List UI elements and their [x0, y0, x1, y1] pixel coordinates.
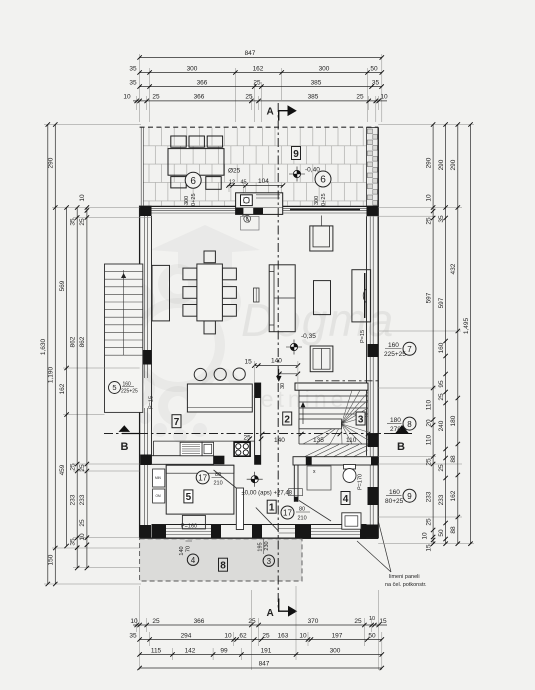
svg-text:300: 300: [314, 196, 320, 205]
svg-text:7: 7: [174, 417, 180, 428]
svg-text:7: 7: [407, 345, 412, 354]
svg-text:140: 140: [271, 358, 282, 365]
svg-text:160: 160: [438, 342, 445, 353]
svg-text:6: 6: [246, 217, 249, 223]
svg-text:294: 294: [181, 632, 192, 639]
svg-text:290: 290: [450, 159, 457, 170]
svg-text:300: 300: [184, 196, 190, 205]
svg-text:Ø25: Ø25: [228, 168, 241, 175]
svg-text:±0,00 (aps) +27,48: ±0,00 (aps) +27,48: [242, 491, 293, 497]
svg-text:2: 2: [284, 414, 290, 425]
svg-text:35: 35: [129, 79, 137, 86]
svg-text:3: 3: [267, 557, 272, 566]
svg-text:210: 210: [214, 481, 223, 487]
svg-text:4: 4: [343, 494, 349, 505]
svg-text:Dogma: Dogma: [241, 294, 394, 346]
svg-text:162: 162: [450, 490, 457, 501]
svg-text:35: 35: [372, 79, 380, 86]
svg-text:4: 4: [191, 556, 196, 565]
svg-text:10: 10: [299, 632, 307, 639]
svg-text:569: 569: [59, 280, 66, 291]
svg-text:225+25: 225+25: [384, 351, 406, 358]
svg-text:6: 6: [190, 176, 196, 187]
svg-text:P=15: P=15: [149, 396, 155, 409]
svg-text:5: 5: [186, 492, 192, 503]
svg-text:240: 240: [438, 420, 445, 431]
svg-text:8: 8: [407, 420, 412, 429]
svg-text:195: 195: [258, 542, 264, 551]
svg-text:B: B: [397, 441, 405, 453]
svg-text:25: 25: [438, 464, 445, 472]
svg-text:3: 3: [358, 414, 364, 425]
svg-text:99: 99: [220, 647, 228, 654]
svg-text:25: 25: [354, 618, 362, 625]
svg-text:25: 25: [425, 458, 432, 466]
svg-text:160: 160: [389, 489, 400, 496]
svg-text:na čel. potkonstr.: na čel. potkonstr.: [385, 582, 427, 588]
svg-text:233: 233: [79, 494, 86, 505]
svg-text:80+25: 80+25: [385, 498, 404, 505]
svg-text:25: 25: [70, 463, 77, 471]
svg-text:35: 35: [129, 632, 137, 639]
svg-text:20: 20: [425, 419, 432, 427]
svg-text:35: 35: [438, 215, 445, 223]
svg-text:-0,40: -0,40: [305, 167, 320, 174]
svg-text:10: 10: [380, 94, 388, 101]
svg-text:10: 10: [79, 533, 86, 541]
svg-text:88: 88: [450, 455, 457, 463]
svg-text:25: 25: [245, 94, 253, 101]
svg-text:15: 15: [379, 618, 387, 625]
svg-text:9: 9: [407, 492, 412, 501]
svg-text:1: 1: [269, 503, 275, 514]
svg-text:A: A: [267, 608, 274, 619]
svg-text:1,495: 1,495: [463, 317, 470, 334]
svg-text:25: 25: [152, 94, 160, 101]
svg-text:300: 300: [330, 647, 341, 654]
svg-text:25: 25: [79, 218, 86, 226]
svg-text:B: B: [121, 441, 129, 453]
svg-text:104: 104: [258, 178, 269, 185]
svg-text:10: 10: [224, 632, 232, 639]
svg-text:110: 110: [425, 434, 432, 445]
svg-text:847: 847: [259, 661, 270, 668]
svg-text:10: 10: [130, 618, 138, 625]
svg-text:P=15: P=15: [360, 330, 366, 343]
svg-text:70: 70: [186, 546, 192, 552]
svg-text:150: 150: [48, 554, 55, 565]
svg-text:385: 385: [311, 79, 322, 86]
svg-text:140: 140: [179, 546, 185, 555]
svg-text:162: 162: [59, 383, 66, 394]
svg-text:95: 95: [438, 380, 445, 388]
svg-text:140: 140: [274, 437, 285, 444]
svg-text:A: A: [267, 107, 274, 118]
svg-text:10: 10: [79, 194, 86, 202]
svg-text:8: 8: [220, 561, 226, 572]
svg-text:50: 50: [370, 65, 378, 72]
svg-text:180: 180: [450, 415, 457, 426]
svg-text:6: 6: [320, 175, 326, 186]
svg-text:210: 210: [298, 516, 307, 522]
svg-text:45: 45: [241, 180, 247, 186]
svg-text:115: 115: [151, 647, 162, 654]
svg-text:142: 142: [185, 647, 196, 654]
svg-text:230: 230: [264, 541, 270, 550]
svg-text:300: 300: [319, 65, 330, 72]
svg-text:17: 17: [198, 474, 207, 483]
svg-text:10: 10: [421, 532, 428, 540]
svg-text:25: 25: [262, 632, 270, 639]
svg-text:862: 862: [70, 336, 77, 347]
svg-text:50: 50: [368, 632, 376, 639]
svg-text:80: 80: [215, 472, 221, 478]
svg-text:88: 88: [450, 526, 457, 534]
svg-text:25: 25: [79, 519, 86, 527]
svg-text:P=170: P=170: [358, 474, 364, 490]
svg-text:OM: OM: [156, 494, 161, 498]
svg-text:847: 847: [245, 50, 256, 57]
svg-text:15: 15: [425, 544, 432, 552]
svg-text:35: 35: [129, 65, 137, 72]
svg-text:197: 197: [332, 632, 343, 639]
svg-text:25: 25: [425, 518, 432, 526]
svg-text:300: 300: [187, 65, 198, 72]
svg-text:110: 110: [346, 437, 357, 444]
svg-text:-0,35: -0,35: [301, 333, 316, 340]
svg-text:25: 25: [253, 79, 261, 86]
svg-text:25: 25: [152, 618, 160, 625]
svg-text:10: 10: [123, 94, 131, 101]
svg-text:278: 278: [390, 426, 401, 433]
svg-text:160: 160: [388, 342, 399, 349]
svg-text:25: 25: [425, 217, 432, 225]
svg-text:180: 180: [390, 417, 401, 424]
svg-text:290: 290: [438, 159, 445, 170]
svg-text:225+25: 225+25: [121, 389, 138, 395]
svg-text:5: 5: [112, 383, 116, 392]
svg-text:25: 25: [248, 618, 256, 625]
svg-text:17: 17: [283, 509, 292, 518]
svg-text:P=160: P=160: [181, 524, 197, 530]
svg-text:25: 25: [438, 393, 445, 401]
svg-text:135: 135: [313, 437, 324, 444]
svg-text:80: 80: [299, 507, 305, 513]
svg-text:1,190: 1,190: [48, 366, 55, 383]
svg-text:385: 385: [308, 94, 319, 101]
svg-text:597: 597: [438, 297, 445, 308]
svg-text:233: 233: [70, 494, 77, 505]
svg-text:233: 233: [438, 494, 445, 505]
svg-text:35: 35: [70, 218, 77, 226]
svg-text:459: 459: [59, 464, 66, 475]
svg-text:290: 290: [48, 157, 55, 168]
svg-text:10: 10: [425, 194, 432, 202]
svg-text:35: 35: [70, 538, 77, 546]
svg-text:limeni paneli: limeni paneli: [389, 574, 420, 580]
svg-text:10: 10: [369, 616, 375, 622]
svg-text:62: 62: [239, 632, 247, 639]
svg-text:862: 862: [79, 336, 86, 347]
svg-text:15: 15: [245, 359, 253, 366]
svg-text:MIN: MIN: [155, 476, 162, 480]
svg-text:191: 191: [261, 647, 272, 654]
svg-text:370: 370: [308, 618, 319, 625]
svg-text:366: 366: [194, 618, 205, 625]
svg-text:233: 233: [425, 491, 432, 502]
svg-text:25: 25: [356, 94, 364, 101]
svg-text:110: 110: [425, 399, 432, 410]
svg-text:12: 12: [229, 180, 235, 186]
svg-text:366: 366: [194, 94, 205, 101]
svg-text:366: 366: [197, 79, 208, 86]
svg-text:432: 432: [450, 263, 457, 274]
svg-text:30: 30: [280, 383, 286, 389]
svg-text:1,630: 1,630: [40, 338, 47, 355]
svg-text:162: 162: [253, 65, 264, 72]
svg-text:163: 163: [278, 632, 289, 639]
svg-text:50: 50: [438, 529, 445, 537]
svg-text:290: 290: [425, 157, 432, 168]
svg-text:9: 9: [293, 149, 299, 160]
svg-text:25: 25: [79, 464, 86, 472]
svg-text:597: 597: [425, 292, 432, 303]
